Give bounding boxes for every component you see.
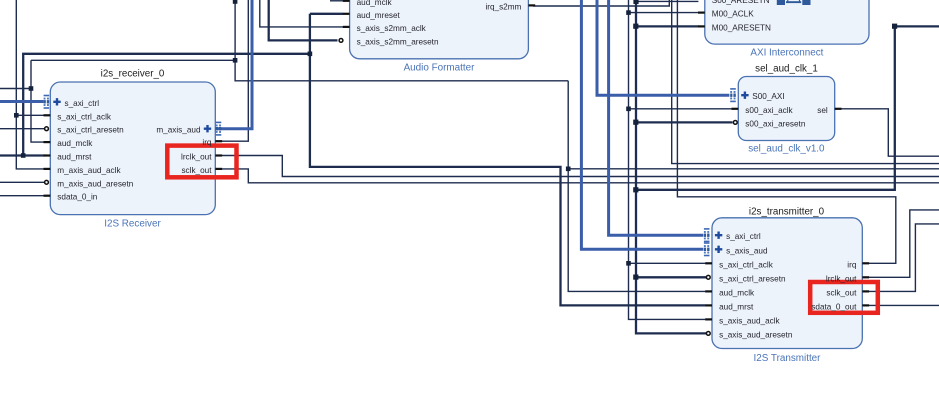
svg-text:sel_aud_clk_v1.0: sel_aud_clk_v1.0 xyxy=(748,144,825,155)
svg-text:aud_mclk: aud_mclk xyxy=(719,288,755,297)
svg-text:s_axis_s2mm_aresetn: s_axis_s2mm_aresetn xyxy=(357,37,439,46)
svg-text:sdata_0_out: sdata_0_out xyxy=(811,302,857,311)
svg-text:m_axis_aud_aresetn: m_axis_aud_aresetn xyxy=(57,179,133,188)
svg-text:I2S Receiver: I2S Receiver xyxy=(104,219,161,230)
svg-text:irq: irq xyxy=(847,260,857,269)
svg-text:s00_axi_aresetn: s00_axi_aresetn xyxy=(745,119,806,128)
svg-text:S00_ARESETN: S00_ARESETN xyxy=(712,0,770,5)
svg-text:lrclk_out: lrclk_out xyxy=(826,274,857,283)
svg-text:aud_mreset: aud_mreset xyxy=(357,11,401,20)
svg-text:I2S Transmitter: I2S Transmitter xyxy=(754,353,822,364)
svg-text:aud_mrst: aud_mrst xyxy=(719,302,754,311)
svg-text:s_axi_ctrl: s_axi_ctrl xyxy=(726,232,761,241)
svg-text:m_axis_aud_aclk: m_axis_aud_aclk xyxy=(57,166,121,175)
svg-text:aud_mclk: aud_mclk xyxy=(57,139,93,148)
svg-text:i2s_receiver_0: i2s_receiver_0 xyxy=(101,69,165,80)
svg-text:aud_mrst: aud_mrst xyxy=(57,153,92,162)
svg-text:sclk_out: sclk_out xyxy=(181,166,212,175)
svg-text:sel_aud_clk_1: sel_aud_clk_1 xyxy=(755,64,818,75)
svg-text:s00_axi_aclk: s00_axi_aclk xyxy=(745,106,793,115)
svg-text:aud_mclk: aud_mclk xyxy=(357,0,393,7)
svg-text:s_axis_aud: s_axis_aud xyxy=(726,246,768,255)
svg-text:s_axi_ctrl_aclk: s_axi_ctrl_aclk xyxy=(719,260,774,269)
svg-text:irq_s2mm: irq_s2mm xyxy=(485,2,521,11)
svg-text:S00_AXI: S00_AXI xyxy=(752,92,784,101)
svg-text:sclk_out: sclk_out xyxy=(826,288,857,297)
svg-text:sdata_0_in: sdata_0_in xyxy=(57,193,98,202)
svg-text:AXI Interconnect: AXI Interconnect xyxy=(750,48,823,59)
svg-text:i2s_transmitter_0: i2s_transmitter_0 xyxy=(749,207,825,218)
svg-text:Audio Formatter: Audio Formatter xyxy=(404,63,476,74)
svg-text:sel: sel xyxy=(817,106,828,115)
svg-text:s_axi_ctrl_aresetn: s_axi_ctrl_aresetn xyxy=(57,126,124,135)
svg-text:s_axi_ctrl_aclk: s_axi_ctrl_aclk xyxy=(57,112,112,121)
svg-text:lrclk_out: lrclk_out xyxy=(181,153,212,162)
svg-text:s_axi_ctrl_aresetn: s_axi_ctrl_aresetn xyxy=(719,274,786,283)
svg-text:M00_ARESETN: M00_ARESETN xyxy=(712,23,771,32)
svg-text:s_axi_ctrl: s_axi_ctrl xyxy=(65,99,100,108)
svg-text:M00_ACLK: M00_ACLK xyxy=(712,10,754,19)
svg-text:m_axis_aud: m_axis_aud xyxy=(156,126,201,135)
svg-text:irq: irq xyxy=(202,138,212,147)
svg-text:s_axis_aud_aclk: s_axis_aud_aclk xyxy=(719,316,780,325)
svg-text:s_axis_aud_aresetn: s_axis_aud_aresetn xyxy=(719,330,793,339)
svg-text:s_axis_s2mm_aclk: s_axis_s2mm_aclk xyxy=(357,24,427,33)
